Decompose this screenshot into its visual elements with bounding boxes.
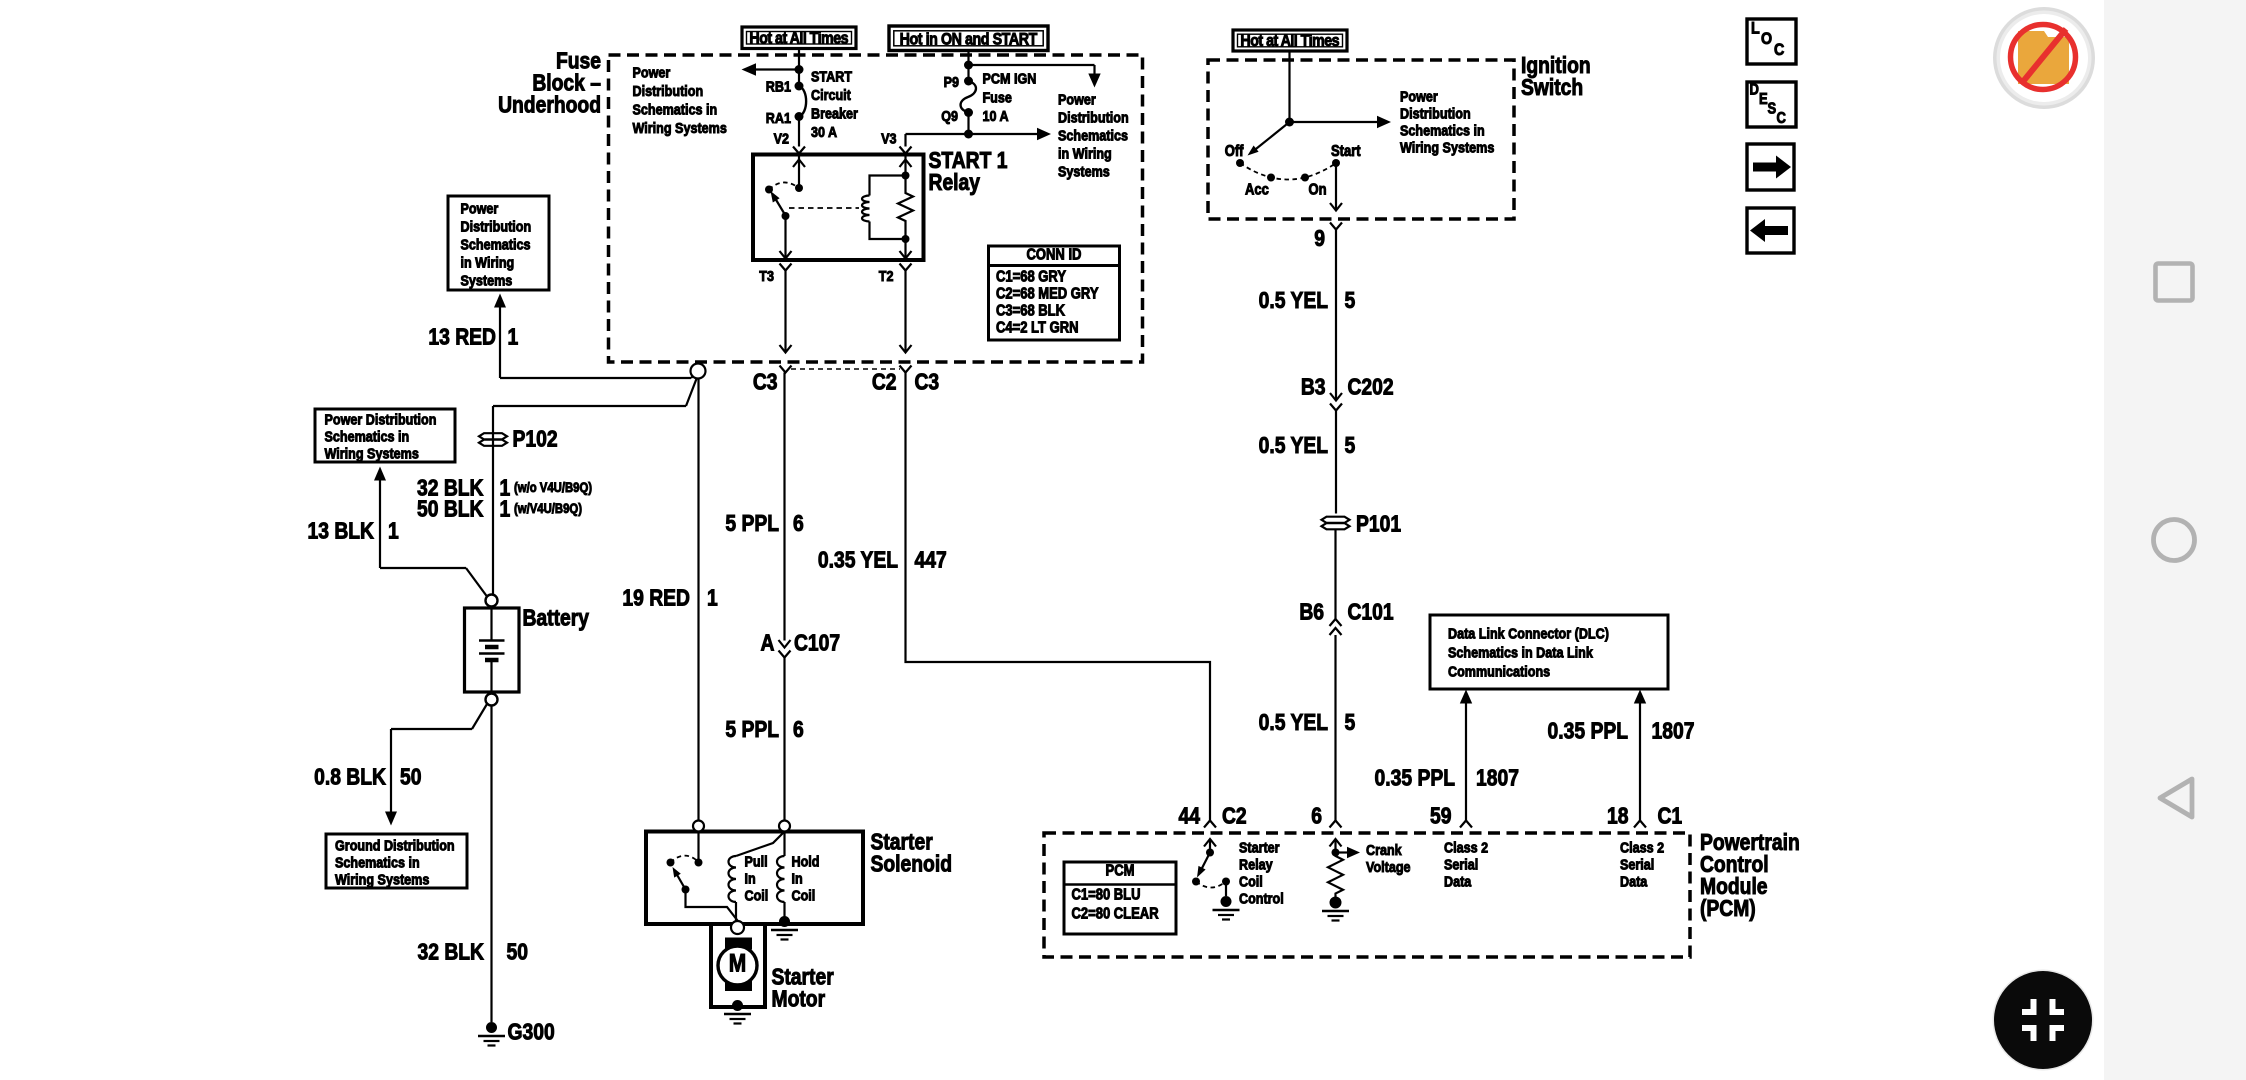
svg-text:O: O [1761, 30, 1772, 48]
wire: C202 to P101 (0.5 YEL 5) [1259, 411, 1356, 514]
label: Class 2 Serial Data (right) [1620, 838, 1664, 889]
svg-text:Schematics: Schematics [460, 235, 530, 252]
wire: battery negative to G300 (32 BLK 50) [417, 706, 527, 1023]
svg-text:Wiring Systems: Wiring Systems [1400, 138, 1495, 155]
svg-text:On: On [1309, 182, 1327, 199]
svg-text:Hot at All Times: Hot at All Times [1240, 32, 1339, 50]
svg-text:Starter: Starter [1239, 838, 1280, 855]
svg-text:C3: C3 [753, 370, 778, 395]
svg-text:Power: Power [460, 199, 498, 216]
wire: fuse to V3 junction [964, 113, 973, 139]
svg-text:Serial: Serial [1444, 855, 1478, 872]
svg-text:1: 1 [707, 586, 718, 611]
wire: 9 to C202 (0.5 YEL 5) [1259, 230, 1356, 401]
wire: 13 RED tap [428, 294, 698, 379]
svg-text:T3: T3 [759, 267, 774, 284]
svg-text:Acc: Acc [1245, 182, 1269, 199]
splice P102 [479, 427, 558, 452]
svg-text:9: 9 [1314, 227, 1325, 252]
svg-text:in Wiring: in Wiring [460, 253, 514, 270]
starter solenoid terminals [693, 821, 790, 832]
wire: 0.8 BLK to ground distribution [314, 704, 487, 826]
starter solenoid box [646, 832, 863, 925]
svg-text:59: 59 [1430, 804, 1452, 829]
splice P101 [1322, 512, 1402, 537]
note: power distribution schematics (fuse block left) [633, 63, 728, 136]
svg-text:0.8 BLK: 0.8 BLK [314, 765, 386, 790]
starter relay coil control driver [1192, 839, 1230, 896]
collapse button [1993, 970, 2094, 1071]
arrow to power distribution (left) [742, 63, 800, 76]
svg-text:RA1: RA1 [766, 109, 791, 126]
svg-text:C101: C101 [1348, 600, 1394, 625]
svg-text:Coil: Coil [745, 886, 769, 903]
relay actuation link (dashed) [789, 207, 859, 209]
svg-text:C4=2 LT GRN: C4=2 LT GRN [996, 320, 1079, 337]
starter solenoid label [871, 830, 952, 877]
svg-text:C: C [1774, 41, 1784, 59]
wire: C3 to C107 (5 PPL 6) [725, 373, 804, 648]
svg-text:RB1: RB1 [766, 77, 791, 94]
svg-text:Underhood: Underhood [498, 93, 601, 118]
pin 59 [1430, 804, 1472, 829]
wire: battery positive feed [493, 378, 697, 595]
home button (circle) [2154, 520, 2195, 561]
fuse block label [498, 49, 601, 118]
callout: Hot at All Times (ignition) [1233, 30, 1347, 51]
starter motor label [771, 965, 833, 1012]
svg-text:Coil: Coil [791, 886, 815, 903]
svg-text:(w/V4U/B9Q): (w/V4U/B9Q) [514, 501, 582, 516]
svg-text:Solenoid: Solenoid [871, 852, 952, 877]
svg-text:P102: P102 [513, 427, 558, 452]
note box: ground distribution [326, 834, 467, 888]
note box: power distribution (13 RED) [448, 196, 549, 290]
svg-text:0.5 YEL: 0.5 YEL [1259, 289, 1328, 314]
svg-text:C2: C2 [1222, 804, 1247, 829]
svg-text:T2: T2 [879, 267, 894, 284]
svg-text:Schematics in: Schematics in [1400, 121, 1485, 138]
connector link (dashed) [791, 368, 900, 370]
label: 32/50 BLK [417, 476, 592, 522]
relay U1 box (START 1 Relay) [753, 155, 924, 261]
battery [465, 595, 590, 706]
hold in coil [777, 832, 819, 918]
svg-text:13 BLK: 13 BLK [308, 519, 375, 544]
svg-text:Control: Control [1239, 889, 1284, 906]
svg-text:Hot at All Times: Hot at All Times [749, 30, 848, 48]
starter motor [718, 921, 757, 991]
svg-text:C2=80 CLEAR: C2=80 CLEAR [1072, 906, 1160, 923]
svg-text:G300: G300 [508, 1020, 555, 1045]
CONN ID table [989, 246, 1120, 340]
svg-text:0.35 PPL: 0.35 PPL [1375, 766, 1455, 791]
note: power distribution schematics (fuse block right) [1058, 90, 1129, 179]
svg-text:CONN ID: CONN ID [1027, 247, 1082, 264]
svg-text:C3: C3 [914, 370, 939, 395]
svg-text:B3: B3 [1301, 375, 1326, 400]
svg-text:In: In [745, 869, 756, 886]
wire: 13 BLK tap [308, 467, 487, 597]
svg-text:Schematics in: Schematics in [633, 100, 718, 117]
ground (coil control) [1213, 896, 1240, 920]
svg-text:Communications: Communications [1448, 662, 1550, 679]
relay switch [765, 182, 798, 258]
svg-text:Crank: Crank [1366, 841, 1402, 858]
svg-text:Class 2: Class 2 [1620, 838, 1664, 855]
junction: fuse block battery node [691, 364, 706, 379]
ignition positions [1225, 143, 1361, 199]
svg-text:Breaker: Breaker [811, 104, 858, 121]
relay coil resistor [898, 155, 913, 259]
svg-text:Distribution: Distribution [1400, 104, 1471, 121]
connector A/C107 [761, 631, 841, 657]
back button (triangle) [2160, 779, 2192, 817]
connector B6/C101 [1299, 600, 1393, 635]
svg-text:M: M [729, 949, 746, 977]
svg-text:Distribution: Distribution [1058, 108, 1129, 125]
svg-text:Power: Power [1058, 90, 1096, 107]
svg-text:19 RED: 19 RED [622, 586, 690, 611]
ground G300 [478, 1020, 555, 1045]
svg-text:START: START [811, 67, 853, 84]
svg-text:C2=68 MED GRY: C2=68 MED GRY [996, 286, 1099, 303]
svg-text:Relay: Relay [1239, 855, 1273, 872]
recents button (square) [2156, 264, 2193, 301]
callout: Hot in ON and START [889, 26, 1048, 51]
wire: T2 to fuse block edge [900, 271, 912, 353]
wire: hot feed into ignition switch [1285, 51, 1294, 127]
svg-text:Wiring Systems: Wiring Systems [335, 870, 430, 887]
svg-text:in Wiring: in Wiring [1058, 144, 1112, 161]
svg-text:Schematics in: Schematics in [325, 427, 410, 444]
svg-text:Fuse: Fuse [982, 88, 1012, 105]
ignition switch (dashed box) [1208, 60, 1514, 219]
svg-text:Data: Data [1620, 872, 1648, 889]
svg-text:Power: Power [633, 63, 671, 80]
svg-text:Wiring Systems: Wiring Systems [633, 119, 728, 136]
svg-text:C107: C107 [794, 631, 840, 656]
svg-text:50: 50 [400, 765, 421, 790]
resistor (crank voltage) [1328, 853, 1343, 898]
svg-text:5: 5 [1345, 434, 1356, 459]
pin C3 (left) [753, 366, 792, 396]
svg-text:6: 6 [793, 718, 804, 743]
svg-text:(PCM): (PCM) [1700, 897, 1756, 922]
wire: C107 to starter solenoid (5 PPL 6) [725, 658, 804, 821]
LOC button [1747, 19, 1796, 64]
svg-text:50: 50 [507, 940, 528, 965]
svg-text:5: 5 [1345, 289, 1356, 314]
svg-text:Distribution: Distribution [633, 82, 704, 99]
svg-text:E: E [1759, 91, 1768, 108]
starter motor box [711, 924, 765, 1007]
svg-text:Power Distribution: Power Distribution [325, 410, 437, 427]
DESC button [1747, 82, 1796, 128]
svg-text:5 PPL: 5 PPL [725, 512, 779, 537]
label: Class 2 Serial Data (left) [1444, 838, 1488, 889]
svg-text:Voltage: Voltage [1366, 858, 1411, 875]
solenoid contact switch [667, 832, 738, 921]
svg-text:(w/o V4U/B9Q): (w/o V4U/B9Q) [514, 480, 592, 495]
svg-text:C3=68 BLK: C3=68 BLK [996, 303, 1066, 320]
svg-text:Power: Power [1400, 87, 1438, 104]
relay switch common (from V2) [793, 155, 805, 193]
svg-text:Off: Off [1225, 143, 1244, 160]
svg-text:Schematics in: Schematics in [335, 853, 420, 870]
svg-text:13 RED: 13 RED [428, 325, 496, 350]
svg-text:Schematics in Data Link: Schematics in Data Link [1448, 643, 1593, 660]
svg-text:Pull: Pull [745, 852, 768, 869]
pull in coil [729, 832, 785, 921]
fuse block - underhood (dashed box) [609, 55, 1143, 362]
svg-text:Hot in ON and START: Hot in ON and START [900, 31, 1038, 49]
wire: P101 to C101 [1334, 530, 1336, 620]
pin 44/C2 [1179, 804, 1247, 829]
pin T2 [879, 264, 912, 285]
wire: 18 to DLC (0.35 PPL 1807) [1548, 690, 1695, 821]
svg-text:Ground Distribution: Ground Distribution [335, 836, 455, 853]
circuit breaker RB1/RA1 (START Circuit Breaker 30 A) [766, 67, 859, 140]
svg-text:Switch: Switch [1521, 76, 1583, 101]
svg-text:0.35 YEL: 0.35 YEL [818, 548, 898, 573]
svg-text:5: 5 [1345, 711, 1356, 736]
wire: Start to pin 9 [1330, 163, 1342, 211]
svg-text:Schematics: Schematics [1058, 126, 1128, 143]
svg-text:Battery: Battery [522, 606, 589, 631]
ignition rotor arm [1248, 122, 1290, 156]
wire: hot feed into fuse block [795, 49, 804, 87]
wire: C101 to PCM pin 6 (0.5 YEL 5) [1259, 635, 1356, 821]
arrow to power distribution (ignition) [1290, 116, 1392, 128]
svg-text:Systems: Systems [460, 271, 512, 288]
wire: 19 RED to starter solenoid [622, 379, 717, 821]
svg-text:V3: V3 [881, 129, 897, 146]
svg-text:1807: 1807 [1651, 719, 1694, 744]
svg-text:PCM IGN: PCM IGN [982, 69, 1036, 86]
svg-text:1807: 1807 [1476, 766, 1519, 791]
svg-text:6: 6 [1311, 804, 1322, 829]
pin 9 [1314, 223, 1342, 252]
next page button [1747, 144, 1794, 190]
svg-text:Hold: Hold [791, 852, 819, 869]
svg-text:30 A: 30 A [811, 123, 837, 140]
svg-text:Circuit: Circuit [811, 86, 851, 103]
svg-text:Data: Data [1444, 872, 1472, 889]
svg-text:Q9: Q9 [941, 107, 958, 124]
PCM (dashed box) [1044, 833, 1690, 957]
svg-text:Start: Start [1331, 143, 1361, 160]
relay coil [862, 172, 909, 244]
svg-text:32 BLK: 32 BLK [417, 940, 484, 965]
svg-text:Wiring Systems: Wiring Systems [325, 444, 420, 461]
wire: C2/C3 to PCM pin 44 (0.35 YEL 447) [818, 373, 1210, 821]
svg-text:C1: C1 [1657, 804, 1682, 829]
svg-text:Class 2: Class 2 [1444, 838, 1488, 855]
PCM connector table [1064, 862, 1176, 934]
no-folder icon [1993, 7, 2095, 109]
svg-text:447: 447 [914, 548, 946, 573]
wire: hot in ON feed [964, 51, 973, 82]
pin T3 [759, 264, 791, 285]
svg-text:Relay: Relay [929, 171, 981, 196]
pin C2/C3 (right) [872, 366, 940, 396]
callout: Hot at All Times (left) [742, 27, 856, 49]
ground (crank voltage) [1322, 897, 1349, 921]
svg-text:Data Link Connector (DLC): Data Link Connector (DLC) [1448, 624, 1609, 641]
pin 18/C1 [1607, 804, 1682, 829]
svg-text:5 PPL: 5 PPL [725, 718, 779, 743]
svg-text:L: L [1751, 20, 1760, 38]
ground (starter motor) [724, 1000, 751, 1024]
svg-text:0.5 YEL: 0.5 YEL [1259, 434, 1328, 459]
svg-text:Distribution: Distribution [460, 217, 531, 234]
svg-text:1: 1 [508, 325, 519, 350]
svg-text:0.5 YEL: 0.5 YEL [1259, 711, 1328, 736]
connector B3/C202 [1301, 375, 1394, 410]
wire: T3 to fuse block edge [780, 271, 792, 353]
svg-text:P9: P9 [944, 73, 960, 90]
svg-text:Systems: Systems [1058, 162, 1110, 179]
wire: 59 to DLC (0.35 PPL 1807) [1375, 690, 1519, 821]
svg-text:In: In [791, 869, 802, 886]
svg-text:C202: C202 [1348, 375, 1394, 400]
note: power distribution schematics (ignition) [1400, 87, 1495, 155]
svg-text:44: 44 [1179, 804, 1201, 829]
svg-text:V2: V2 [774, 129, 790, 146]
pin 6 [1311, 804, 1341, 829]
sidebar [2104, 0, 2246, 1080]
ignition switch label [1521, 54, 1591, 101]
svg-text:PCM: PCM [1106, 863, 1135, 880]
note box: power distribution (13 BLK) [315, 409, 455, 462]
fuse P9/Q9 (PCM IGN Fuse 10 A) [941, 69, 1036, 124]
svg-text:C2: C2 [872, 370, 897, 395]
label: Starter Relay Coil Control [1239, 838, 1284, 906]
svg-text:0.35 PPL: 0.35 PPL [1548, 719, 1628, 744]
svg-text:1: 1 [388, 519, 399, 544]
svg-text:B6: B6 [1299, 600, 1324, 625]
pin V3 [881, 129, 911, 153]
svg-text:10 A: 10 A [982, 107, 1008, 124]
pin V2 [774, 117, 805, 154]
svg-text:6: 6 [793, 512, 804, 537]
DLC note box [1430, 615, 1668, 689]
PCM label [1700, 831, 1800, 922]
crank voltage sense [1330, 839, 1411, 875]
ground (hold in coil) [771, 916, 798, 940]
svg-text:S: S [1768, 101, 1777, 118]
svg-text:Serial: Serial [1620, 855, 1654, 872]
prev page button [1747, 208, 1794, 253]
svg-text:D: D [1750, 82, 1759, 99]
svg-text:Coil: Coil [1239, 872, 1263, 889]
svg-text:C: C [1776, 110, 1785, 127]
svg-text:1: 1 [499, 497, 510, 522]
svg-text:Motor: Motor [771, 987, 825, 1012]
relay label [929, 149, 1008, 196]
svg-text:50 BLK: 50 BLK [417, 497, 484, 522]
svg-text:P101: P101 [1356, 512, 1401, 537]
svg-text:18: 18 [1607, 804, 1629, 829]
svg-text:C1=80 BLU: C1=80 BLU [1072, 887, 1141, 904]
arrow to power distribution (top right) [969, 65, 1101, 88]
svg-text:C1=68 GRY: C1=68 GRY [996, 269, 1066, 286]
arrow to power distribution (right) [906, 128, 1052, 140]
svg-text:A: A [761, 631, 775, 656]
